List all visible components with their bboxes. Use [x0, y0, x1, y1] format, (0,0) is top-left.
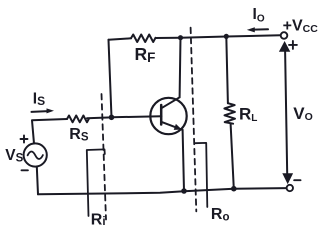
resistor RL [224, 103, 235, 124]
svg-text:Ri: Ri [91, 212, 106, 229]
svg-text:VS: VS [5, 147, 23, 164]
resistor RF [131, 35, 156, 43]
plus sign VS [21, 136, 28, 143]
measurement bracket Ri [87, 149, 105, 216]
svg-text:RS: RS [69, 126, 89, 144]
plus sign VO top [289, 41, 297, 49]
wire VO vertical [285, 51, 287, 175]
measurement bracket Ro [195, 143, 207, 207]
svg-text:RF: RF [135, 44, 156, 65]
wire top rail left segment [109, 38, 132, 40]
terminal +VCC [281, 32, 288, 39]
terminal bottom right [287, 185, 293, 191]
current arrow IO [247, 27, 268, 32]
transistor Q1 [150, 97, 186, 134]
junction node RL/top rail [224, 34, 229, 39]
dashed boundary line Ri [102, 94, 107, 220]
junction node base [109, 115, 115, 121]
junction node collector/top rail [178, 35, 183, 40]
voltage arrow VO down head [282, 173, 293, 184]
wire RF loop left vertical [109, 40, 112, 118]
wire RS to base node [87, 116, 112, 119]
dashed boundary line Ro [191, 28, 197, 212]
wire RL bottom [231, 124, 234, 189]
minus sign VO bottom [294, 179, 300, 181]
svg-text:RL: RL [239, 105, 257, 124]
svg-text:Ro: Ro [211, 206, 230, 223]
resistor RS [67, 116, 89, 123]
svg-text:VO: VO [293, 104, 313, 123]
wire source bottom [37, 167, 38, 195]
wire base [112, 116, 162, 117]
wire RL top [226, 36, 228, 103]
wire top rail right segment [156, 35, 281, 38]
junction node emitter/bottom rail [181, 188, 187, 194]
minus sign VS [22, 169, 28, 171]
wire emitter [183, 130, 184, 191]
wire bottom rail [38, 188, 286, 194]
wire source top / RS left [32, 119, 67, 144]
svg-text:+VCC: +VCC [283, 17, 319, 35]
svg-text:IO: IO [253, 6, 265, 24]
wire collector [179, 37, 182, 97]
source VS [24, 143, 47, 166]
current arrow IS [32, 108, 55, 113]
voltage arrow VO up head [279, 41, 290, 52]
svg-text:IS: IS [33, 91, 45, 108]
junction node RL/bottom rail [231, 186, 237, 192]
